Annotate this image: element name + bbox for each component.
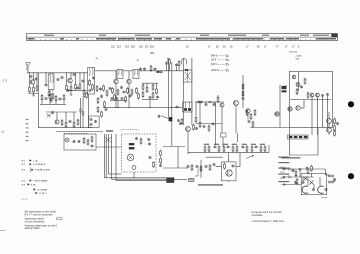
svg-text:25: 25 xyxy=(216,47,219,49)
wire left frame bottom xyxy=(38,127,92,129)
wire resistor bank drops xyxy=(143,83,157,87)
wire switch row xyxy=(46,111,77,113)
transistor T10 xyxy=(275,112,279,116)
capacitor R8x-7 xyxy=(149,96,152,99)
resistor R2x-2 xyxy=(52,93,54,100)
wire T3 emitter drop xyxy=(115,84,117,108)
transistor T13 xyxy=(292,75,296,79)
svg-text:Spannungs marken: Spannungs marken xyxy=(25,218,45,221)
transistor T3 xyxy=(114,79,118,83)
output stage enclosure xyxy=(289,72,332,128)
capacitor R26x-5 xyxy=(109,87,112,90)
resistor C9x-4 xyxy=(125,96,127,103)
wire detector drops xyxy=(196,102,214,121)
resistor R10x-3 xyxy=(104,101,106,108)
antenna symbol xyxy=(26,63,31,73)
svg-text:Vorderige spannungen an volts: Vorderige spannungen an volts 1 xyxy=(25,224,59,227)
wire rf2 tie xyxy=(67,89,87,91)
motor box enclosure xyxy=(64,134,96,150)
capacitor Ca xyxy=(57,78,60,81)
resistor R14x-1 xyxy=(193,124,195,131)
resistor R26x-3 xyxy=(103,85,105,92)
capacitor R24x-3 xyxy=(159,164,162,167)
svg-text:11 NF 1: 11 NF 1 xyxy=(39,193,47,195)
svg-text:216: 216 xyxy=(139,47,144,49)
transistor T15 xyxy=(310,93,314,97)
resistor R5x-2 xyxy=(92,84,94,91)
resistor P1x-2 xyxy=(295,170,297,177)
rectifier diode D3 xyxy=(304,177,308,181)
wire preamp vertical xyxy=(177,147,179,169)
capacitor C11x-3 xyxy=(90,123,93,126)
wire T1 emitter xyxy=(33,84,35,86)
transistor T7 xyxy=(234,101,239,106)
capacitor R21x-2 xyxy=(300,85,303,88)
svg-text:110V: 110V xyxy=(280,178,285,180)
wire if1 top stub xyxy=(50,73,53,74)
wire stub mid xyxy=(109,173,122,175)
wire power stubs xyxy=(296,171,312,181)
capacitor R13x-1 xyxy=(177,119,180,122)
resistor R18x-2 xyxy=(250,113,252,120)
resistor R8x-4 xyxy=(152,84,154,91)
output label 2x263 xyxy=(296,56,303,58)
resistor P3x-3 xyxy=(328,181,334,183)
resistor R22x-3 xyxy=(334,130,336,137)
wire detector bus xyxy=(195,101,224,103)
wire dial cord vertical 2 xyxy=(171,62,173,146)
wire af supply stub xyxy=(236,133,238,142)
fuse label xyxy=(333,181,337,183)
wire sub stubs xyxy=(57,112,74,121)
wire rf2 drops xyxy=(80,73,84,89)
svg-text:8 TA: 8 TA xyxy=(31,183,36,186)
wire tuning rail left xyxy=(182,58,184,125)
legend connector arrow 2 xyxy=(22,163,46,166)
wire preamp link lower xyxy=(163,167,188,169)
wire mains verticals xyxy=(293,168,330,175)
terminal labels 25x xyxy=(188,178,195,182)
wire T1 base drop xyxy=(29,73,31,86)
resistor R18x-5 xyxy=(252,121,254,128)
capacitor P1x-5 xyxy=(302,181,305,184)
resistor R8x-6 xyxy=(156,88,158,95)
resistor R5x-1 xyxy=(89,79,91,86)
capacitor C23x-3 xyxy=(196,165,199,168)
legend connector arrow 1 xyxy=(22,159,39,162)
capacitor R5x-3 xyxy=(89,89,92,92)
capacitor C31x-3 xyxy=(149,156,152,159)
resistor P1x-4 xyxy=(307,168,309,175)
agc label xyxy=(283,86,288,88)
dial scale upper band wording xyxy=(44,35,329,36)
dial scale end block xyxy=(332,34,338,37)
capacitor R10x-5 xyxy=(105,108,108,111)
wire lower rf tie xyxy=(40,103,66,105)
capacitor Cc xyxy=(139,68,142,71)
motor M2 xyxy=(132,166,136,170)
driver stage box xyxy=(221,162,236,181)
resistor C23x-6 xyxy=(209,164,211,171)
capacitor C11x-1 xyxy=(90,118,93,121)
transistor T16 xyxy=(316,93,320,97)
coil L5 xyxy=(118,69,120,75)
wire T4 base stub xyxy=(128,71,130,80)
coil L2 xyxy=(52,75,54,82)
wire af vertical drop xyxy=(200,160,202,178)
svg-text:M 1: M 1 xyxy=(22,160,26,162)
accessory dashed enclosure xyxy=(121,134,156,172)
capacitor Cf xyxy=(154,68,157,71)
coil L8 xyxy=(136,69,138,75)
capacitor Cb xyxy=(61,76,64,79)
oscillator box B6 xyxy=(183,102,192,112)
coil L1 xyxy=(49,75,51,82)
svg-text:25: 25 xyxy=(186,47,189,49)
capacitor R10x-2 xyxy=(100,95,103,98)
svg-text:25: 25 xyxy=(223,47,226,49)
svg-text:UKW 6: UKW 6 xyxy=(211,70,219,72)
resistor R3x-2 xyxy=(70,85,72,92)
capacitor C11x-2 xyxy=(94,120,97,123)
capacitor R17x-3 xyxy=(242,97,245,100)
resistor C25x-4 xyxy=(87,139,89,146)
capacitor R19x-9 xyxy=(242,145,245,148)
transistor T9 xyxy=(226,170,232,176)
cable bundle label xyxy=(106,130,113,132)
capacitor R3x-4 xyxy=(73,73,76,76)
wire T4 emitter drop xyxy=(128,84,130,108)
label above IF box 1 xyxy=(96,58,99,60)
resistor C23x-2 xyxy=(191,164,193,171)
capacitor R25x-2 xyxy=(45,97,48,100)
wire resistor bank top xyxy=(142,82,158,84)
coil L7 xyxy=(134,69,136,75)
wire sub bottom rail xyxy=(56,131,103,133)
wire preamp link upper xyxy=(163,146,185,148)
IF transformer box B4 xyxy=(133,70,139,79)
capacitor R5x-4 xyxy=(92,76,95,79)
wire decouple drop xyxy=(101,95,103,97)
tone switch arrow xyxy=(246,155,254,159)
svg-text:214: 214 xyxy=(125,47,130,49)
resistor R19x-2 xyxy=(208,145,210,152)
wire T5 emitter drop xyxy=(187,131,189,154)
svg-text:M 2: M 2 xyxy=(22,164,26,166)
capacitor C23x-7 xyxy=(213,163,216,166)
svg-text:M 4: M 4 xyxy=(22,180,26,182)
junction dots detector bus xyxy=(195,101,218,102)
junction dots antenna bus xyxy=(29,72,85,73)
svg-text:215: 215 xyxy=(131,47,136,49)
vertical annotation column lower xyxy=(26,119,29,141)
resistor R1x-1 xyxy=(29,86,31,93)
resistor R23x-1 xyxy=(61,119,63,126)
capacitor P2x-2 xyxy=(325,188,328,191)
coupling capacitor C22 xyxy=(157,115,160,118)
wire if link1 xyxy=(95,70,117,72)
svg-text:1 volt W echselstr. b. 1000 oh: 1 volt W echselstr. b. 1000 ohms xyxy=(252,220,285,223)
capacitor C23x-5 xyxy=(205,165,208,168)
svg-text:17: 17 xyxy=(264,47,267,49)
capacitor C24x-1 xyxy=(321,94,324,97)
transformer core left xyxy=(302,186,308,193)
wire left frame vertical xyxy=(37,73,39,128)
svg-text:mit norm Verstelling.: mit norm Verstelling. xyxy=(25,220,46,223)
output label 264 xyxy=(296,59,300,61)
resistor R15x-1 xyxy=(197,101,203,103)
capacitor R19x-12 xyxy=(255,145,258,148)
capacitor Cp2 xyxy=(294,181,297,184)
resistor R16x-1 xyxy=(195,116,197,123)
dial scale lower band frequency figures xyxy=(28,38,337,40)
capacitor P3x-2 xyxy=(333,178,336,181)
resistor R21x-3 xyxy=(304,78,306,85)
capacitor R15x-2 xyxy=(205,103,208,106)
label 250 xyxy=(150,53,155,55)
resistor R26x-1 xyxy=(96,85,98,92)
capacitor R16x-3 xyxy=(203,125,206,128)
wire bottom distribution 1 xyxy=(105,177,169,179)
wire if link2 xyxy=(123,70,133,72)
transistor T17 xyxy=(327,119,332,124)
resistor R7x-5 xyxy=(138,93,140,100)
svg-text:217: 217 xyxy=(145,47,150,49)
capacitor R25x-5 xyxy=(59,97,62,100)
svg-text:17: 17 xyxy=(208,47,211,49)
capacitor R26x-2 xyxy=(99,87,102,90)
electrolytic capacitor C28 xyxy=(129,147,134,149)
resistor R3x-1 xyxy=(66,84,68,91)
legend connector arrow 7 xyxy=(22,179,48,182)
mains voltage label 220 xyxy=(280,167,285,169)
resistor R21x-1 xyxy=(296,88,298,95)
wire through accessory box xyxy=(96,146,121,148)
decoupling box B5 xyxy=(89,116,100,128)
wire transformer winding drops xyxy=(308,177,320,188)
svg-text:LW 6: LW 6 xyxy=(211,60,217,62)
resistor C24x-3 xyxy=(307,92,309,99)
margin tick bottom left xyxy=(0,230,5,232)
detector diode D1 xyxy=(208,101,212,103)
wire speaker feed vertical xyxy=(279,85,281,128)
resistor R18x-3 xyxy=(254,109,256,116)
wire driver links xyxy=(275,100,304,115)
svg-text:10 GERAT: 10 GERAT xyxy=(37,188,48,191)
svg-text:28: 28 xyxy=(96,58,99,60)
wire T1 bias drop xyxy=(36,73,38,85)
wire output transistor column xyxy=(328,112,330,135)
resistor R19x-13 xyxy=(260,145,262,152)
resistor R25x-1 xyxy=(41,94,43,101)
tab mark Tf xyxy=(157,71,160,73)
resistor R25x-6 xyxy=(63,94,65,101)
resistor R4x-1 xyxy=(79,83,81,90)
mains wire upper xyxy=(281,168,325,170)
legend connector arrow 8 xyxy=(22,183,36,186)
resistor R17x-1 xyxy=(242,83,244,90)
ground G1 xyxy=(32,93,35,96)
wire lower rf stubs xyxy=(42,100,64,104)
capacitor C31x-2 xyxy=(148,142,151,145)
transformer caption xyxy=(322,196,328,199)
capacitor R6x-5 xyxy=(123,90,126,93)
note reference marks xyxy=(21,199,28,201)
legend connector arrow 10 xyxy=(34,188,49,191)
capacitor R15x-3 xyxy=(213,103,216,106)
wire T8 drop xyxy=(247,113,249,119)
capacitor C12x-3 xyxy=(175,63,178,66)
resistor C23x-4 xyxy=(200,165,202,172)
gang tab xyxy=(185,69,188,71)
wire T6 emitter drop xyxy=(221,107,223,133)
resistor P3x-1 xyxy=(328,175,334,177)
resistor R19x-14 xyxy=(264,145,266,152)
transistor T14 xyxy=(296,83,300,87)
svg-text:17: 17 xyxy=(285,47,288,49)
resistor R24x-2 xyxy=(160,157,162,164)
svg-text:5: 5 xyxy=(298,47,300,49)
legend connector arrow 3 xyxy=(22,169,51,172)
capacitor C23x-1 xyxy=(187,165,190,168)
svg-text:2 VORLAUF: 2 VORLAUF xyxy=(33,163,46,166)
resistor C26x-1 xyxy=(91,136,93,143)
svg-text:Gemessen mit R hre und Tast-: Gemessen mit R hre und Tast- xyxy=(252,211,283,214)
resistor R19x-8 xyxy=(236,145,238,152)
svg-text:77: 77 xyxy=(276,47,279,49)
capacitor C9x-3 xyxy=(121,97,124,100)
legend brace xyxy=(30,168,31,173)
wire shield drop xyxy=(88,94,90,128)
motor M1 xyxy=(127,154,134,161)
svg-text:M 5: M 5 xyxy=(22,184,26,186)
loudspeaker terminal strip xyxy=(288,135,309,139)
wire tuning stubs xyxy=(167,65,180,70)
svg-text:250-: 250- xyxy=(150,53,155,55)
resistor R24x-1 xyxy=(160,150,162,157)
capacitor C9x-2 xyxy=(116,97,119,100)
wire rf tie xyxy=(28,92,38,94)
transistor T5 xyxy=(186,127,191,132)
wire chassis dashed run xyxy=(121,128,139,130)
waveband switch position legend xyxy=(211,55,229,72)
resistor R23x-4 xyxy=(73,121,75,128)
margin registration mark upper xyxy=(3,78,8,83)
dial scale frame xyxy=(27,34,338,41)
resistor R7x-2 xyxy=(131,89,133,96)
resistor R22x-1 xyxy=(334,118,336,125)
resistor R25x-4 xyxy=(55,95,57,102)
transistor T8 xyxy=(246,109,250,113)
switch cross S3 xyxy=(47,114,51,117)
wire aux verticals xyxy=(81,98,84,128)
svg-text:3 START-LAUF: 3 START-LAUF xyxy=(35,169,51,172)
capacitor R3x-5 xyxy=(67,89,70,92)
transistor T2 xyxy=(68,78,72,82)
mains voltage label 127 xyxy=(280,172,285,174)
svg-text:7 MOTORRAD: 7 MOTORRAD xyxy=(33,179,48,182)
transistor T19 xyxy=(55,120,59,124)
capacitor R4x-3 xyxy=(82,79,85,82)
aux tab 1 xyxy=(80,109,82,112)
resistor R10x-6 xyxy=(101,111,103,118)
resistor Re xyxy=(150,65,152,72)
resistor R26x-4 xyxy=(106,90,108,97)
resistor R8x-1 xyxy=(142,84,144,91)
junction dots output bus xyxy=(293,99,328,100)
tuning gang plates xyxy=(185,70,191,82)
punch hole dot lower xyxy=(348,173,354,179)
wire bottom distribution 3 xyxy=(116,180,168,182)
resistor R19x-5 xyxy=(223,145,225,152)
resistor R10x-4 xyxy=(97,106,99,113)
capacitor R16x-5 xyxy=(212,122,215,125)
wire tuning rail right xyxy=(191,58,193,125)
wire tuning base tie xyxy=(163,70,183,72)
svg-text:c ): c ) xyxy=(3,78,8,83)
capacitor R20x-2 xyxy=(232,164,235,167)
svg-text:stellung “Radio”.: stellung “Radio”. xyxy=(25,227,42,230)
ground G2 xyxy=(50,99,53,102)
resistor C31x-4 xyxy=(153,161,155,168)
capacitor R8x-8 xyxy=(156,95,159,98)
volume potentiometer wiper xyxy=(169,117,172,121)
capacitor C24x-2 xyxy=(326,93,329,96)
coil L3 xyxy=(89,68,91,75)
vertical annotation column upper xyxy=(27,63,29,70)
capacitor P1x-1 xyxy=(292,169,295,172)
terminal box small xyxy=(221,133,227,137)
resistor C25x-3 xyxy=(83,137,85,144)
resistor R1x-3 xyxy=(36,85,38,92)
resistor R8x-2 xyxy=(142,91,144,98)
IF transformer shield S1 xyxy=(48,74,54,90)
wire af bus risers xyxy=(223,137,269,153)
wire output stage bottom bus xyxy=(250,127,289,129)
measuring point annotations xyxy=(278,157,289,183)
aux tab 2 xyxy=(82,112,84,115)
svg-text:2x263: 2x263 xyxy=(296,56,303,58)
svg-text:Alle spannungen in volts Scha: Alle spannungen in volts Schalt xyxy=(25,211,57,214)
voltage selector crosses xyxy=(288,168,291,179)
agc label 2 xyxy=(283,89,287,91)
capacitor C30 xyxy=(51,111,54,114)
mains wire middle xyxy=(281,176,314,178)
svg-text:25: 25 xyxy=(230,47,233,49)
wire antenna bus xyxy=(27,72,88,74)
wire if link3 xyxy=(139,70,163,72)
coil L4 xyxy=(92,68,94,75)
wire driver box bottom stub xyxy=(228,181,230,182)
capacitor R23x-3 xyxy=(69,120,72,123)
IF transformer shield S2 xyxy=(88,67,95,94)
svg-text:218: 218 xyxy=(150,47,155,49)
wire T2 emitter xyxy=(70,83,72,85)
capacitor C9x-1 xyxy=(111,97,114,100)
connector block bottom xyxy=(167,178,175,183)
capacitor C25x-2 xyxy=(77,140,80,143)
resistor R4x-2 xyxy=(83,89,85,96)
svg-text:17: 17 xyxy=(292,47,295,49)
wire T2 drops xyxy=(67,73,76,84)
svg-text:213: 213 xyxy=(117,47,122,49)
capacitor C12x-1 xyxy=(165,62,168,65)
resistor R25x-3 xyxy=(49,93,51,100)
resistor R6x-1 xyxy=(112,87,114,94)
svg-text:127V: 127V xyxy=(280,172,285,174)
svg-text:262 263: 262 263 xyxy=(289,52,298,54)
capacitor Cd xyxy=(143,68,146,71)
